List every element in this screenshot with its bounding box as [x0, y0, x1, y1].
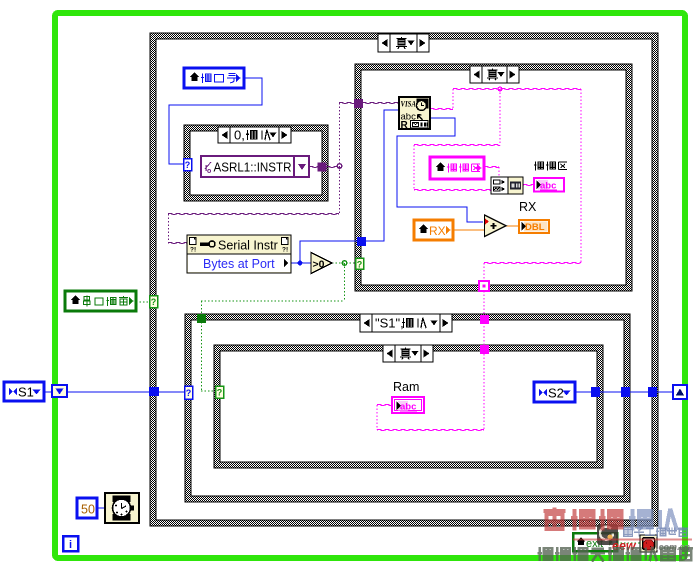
wire 串口状态 green: [136, 301, 150, 303]
case structure: inner 真 case (top right): [355, 64, 632, 291]
svg-text:RX: RX: [519, 200, 537, 214]
tunnel blue S2 on bottom case right: [591, 387, 600, 397]
wire 接收区 control pink: [484, 166, 499, 167]
tunnel pink on S1 case top: [480, 315, 489, 324]
svg-text:Serial Instr: Serial Instr: [218, 239, 278, 253]
case structure: "S1",默认 case: [185, 314, 630, 502]
control 端口号: [184, 68, 244, 88]
case selector 0,默认: [218, 127, 291, 143]
junction VISA wire: [337, 164, 342, 169]
property node Serial Instr / Bytes at Port: [187, 235, 291, 273]
VISA Read icon: [399, 97, 430, 129]
svg-text:50: 50: [81, 503, 95, 517]
indicator RX DBL: [519, 220, 549, 233]
wire S2 blue: [575, 391, 684, 393]
svg-text:DBL: DBL: [525, 222, 545, 233]
watermark 易迪拓培训: [544, 507, 677, 530]
wire Bytes at Port blue: [291, 262, 311, 264]
svg-text:ASRL1::INSTR: ASRL1::INSTR: [214, 161, 292, 175]
VISA combo ASRL1::INSTR: [201, 156, 309, 177]
tunnel VISA out dark purple on ASRL case right: [318, 163, 327, 172]
tunnel pink on inner case bottom: [479, 281, 489, 291]
wire S1 blue: [44, 391, 150, 393]
control 接收区: [430, 157, 484, 179]
coercion dot red: [485, 219, 489, 225]
wire converter out pink: [523, 184, 534, 185]
case selector "S1",默认: [360, 314, 452, 332]
wire RX orange: [453, 229, 485, 231]
svg-text:?: ?: [151, 297, 157, 307]
svg-text:?!: ?!: [190, 247, 196, 254]
wire string from VISA read pink: [430, 108, 453, 109]
tunnel loop output arrow on while border: [673, 385, 687, 399]
indicator Ram abc: [392, 397, 424, 413]
comparison >0 node: [311, 253, 332, 274]
control S2: [534, 382, 575, 402]
case selector 真 (outer): [378, 34, 429, 52]
tunnel blue S2 on outer case right: [648, 387, 657, 397]
svg-text:VISA: VISA: [401, 99, 417, 109]
wire VISA purple from ASRL1: [309, 166, 318, 167]
svg-text:?: ?: [185, 160, 191, 170]
label 接收区: [534, 161, 536, 170]
svg-text:i: i: [69, 539, 72, 551]
tunnel S1 into loop (blue arrow): [52, 385, 67, 397]
svg-text:?: ?: [357, 260, 363, 270]
case structure: outer 真 case: [150, 33, 658, 526]
wait ms node (watch): [105, 493, 139, 523]
tunnel ? green on bottom case left: [216, 386, 224, 398]
add node: [485, 215, 507, 237]
tunnel green ? on big case left (串口状态): [150, 296, 158, 308]
wire >0 out green: [332, 262, 356, 264]
svg-text:?: ?: [217, 388, 223, 398]
indicator 接收区 abc: [534, 178, 564, 192]
tunnel pink on bottom 真 case top: [480, 345, 489, 354]
svg-text:R: R: [401, 120, 409, 131]
tunnel blue S2 on S1 case right: [621, 387, 630, 397]
wire add out orange: [506, 225, 519, 227]
control RX: [414, 220, 453, 240]
wire exit green dotted: [617, 542, 640, 544]
iteration terminal i: [63, 536, 78, 551]
control 串口状态: [65, 291, 136, 311]
svg-text:?: ?: [186, 388, 192, 398]
svg-text:Ram: Ram: [393, 380, 419, 394]
loop stop terminal: [640, 535, 657, 552]
svg-text:o: o: [207, 168, 211, 175]
svg-text:?!: ?!: [282, 247, 288, 254]
case structure: bottom 真 case: [214, 345, 603, 468]
tunnel green ? on inner case left: [356, 258, 364, 269]
case selector 真 (bottom): [383, 345, 433, 362]
wire 端口号 blue: [169, 78, 262, 164]
svg-text:S1: S1: [18, 385, 34, 400]
tunnel blue byte count: [357, 237, 366, 246]
wire VISA read count blue: [397, 118, 483, 222]
tunnel green on S1 case top: [197, 314, 206, 323]
tunnel ? blue on S1 case left: [185, 386, 193, 399]
wire 50 blue: [97, 507, 106, 509]
control S1: [4, 382, 44, 401]
svg-text:Bytes at Port: Bytes at Port: [203, 257, 275, 271]
svg-text:"S1",: "S1",: [375, 316, 404, 331]
svg-text:S2: S2: [548, 386, 564, 401]
tunnel VISA purple on inner case left: [354, 99, 363, 108]
watermark 射频和天线设计专家: [537, 546, 693, 562]
svg-text:RX: RX: [429, 224, 446, 238]
tunnel ? blue on ASRL case left: [184, 159, 192, 171]
constant 50: [77, 498, 97, 518]
svg-text:>0: >0: [313, 259, 325, 271]
case structure: 0,默认 case: [184, 125, 328, 201]
tunnel blue on big case left (S1 wire): [149, 387, 159, 396]
watermark logo EEWorld: [597, 524, 618, 545]
case selector 真 (inner top-right): [470, 66, 519, 83]
local variable exit: [573, 533, 617, 551]
converter byte array to string: [491, 177, 523, 194]
svg-text:0,: 0,: [234, 128, 245, 143]
